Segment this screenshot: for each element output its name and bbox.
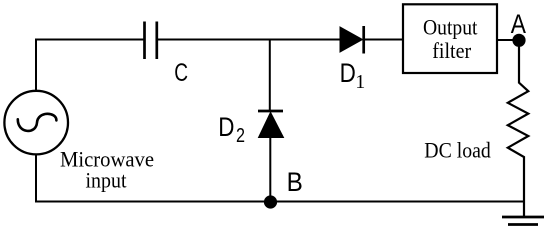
diode D2 cathode bar: [258, 110, 283, 113]
node A junction dot: [512, 34, 525, 47]
diode D2 triangle (pointing up): [259, 112, 284, 137]
capacitor C plates: [143, 22, 146, 60]
svg-text:2: 2: [236, 125, 245, 147]
svg-text:1: 1: [355, 71, 365, 93]
svg-text:D: D: [218, 112, 234, 142]
wire D2 anode to node B: [269, 137, 271, 202]
svg-text:filter: filter: [432, 38, 471, 63]
ground bar 2: [508, 223, 538, 226]
svg-text:D: D: [340, 58, 356, 88]
ground bar 1: [502, 216, 544, 219]
output filter box: [403, 4, 497, 73]
wire node A to resistor / resistor DC load zigzag / wire to ground: [508, 44, 529, 217]
wire top middle (capacitor to diode D1): [157, 39, 341, 41]
diode D1 cathode bar: [362, 26, 365, 54]
diode D1 triangle: [340, 27, 363, 52]
wire D1 to output filter box: [364, 39, 402, 41]
svg-text:input: input: [86, 167, 127, 192]
sine symbol inside source: [18, 114, 57, 131]
AC source circle (microwave input): [4, 91, 68, 155]
wire top-left horizontal (source to capacitor): [35, 39, 145, 41]
node B junction dot: [264, 195, 277, 208]
svg-text:DC load: DC load: [424, 138, 491, 163]
wire left vertical lower (source bottom to bottom wire): [35, 155, 37, 202]
svg-text:C: C: [174, 59, 188, 87]
wire output filter to node A: [497, 39, 519, 41]
svg-text:B: B: [287, 167, 303, 197]
svg-text:A: A: [511, 9, 526, 39]
wire D2 branch vertical upper (top wire to D2 cathode): [269, 40, 271, 112]
wire bottom horizontal: [35, 201, 524, 203]
svg-text:Output: Output: [423, 14, 478, 39]
wire left vertical upper (top wire to source top): [35, 39, 37, 91]
